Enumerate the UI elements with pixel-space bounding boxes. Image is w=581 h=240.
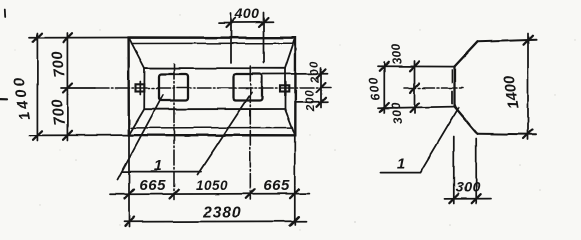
left hole centerline bbox=[173, 64, 175, 200]
dimension 700 left: dimension line bbox=[66, 33, 68, 141]
horizontal centerline bbox=[69, 87, 95, 89]
right view centerline bbox=[404, 87, 463, 89]
dimension 400: extension lines bbox=[230, 13, 232, 63]
right view top extension line bbox=[378, 65, 455, 67]
left face edge bbox=[453, 67, 455, 107]
dimension 300/300: dimension line bbox=[414, 61, 416, 113]
dimension 1400 right: dimension line bbox=[527, 34, 529, 140]
top face rectangle bbox=[144, 68, 285, 109]
svg-text:2380: 2380 bbox=[202, 205, 241, 222]
svg-text:665: 665 bbox=[139, 177, 166, 194]
leader 1 right view: horizontal bar bbox=[380, 172, 420, 174]
dimension 600: dimension line bbox=[383, 62, 385, 113]
leader 1 line from left hole bbox=[118, 95, 164, 180]
left lifting fixture bbox=[136, 84, 145, 91]
inner double line top bbox=[132, 42, 293, 44]
ticks for 300/300 bbox=[410, 62, 419, 71]
corner diagonal bottom-left bbox=[129, 109, 144, 135]
leader 2 line from right hole bbox=[198, 92, 253, 175]
svg-text:1: 1 bbox=[397, 156, 405, 173]
corner diagonal top-right bbox=[285, 38, 295, 68]
dimension 2380: tick marks bbox=[125, 217, 134, 226]
dimension 200/200: tick marks bbox=[317, 69, 326, 78]
corner diagonal bottom-right bbox=[285, 109, 295, 135]
svg-text:700: 700 bbox=[48, 50, 68, 79]
svg-text:300: 300 bbox=[456, 179, 481, 195]
ticks for 1400 right bbox=[524, 36, 533, 45]
svg-text:400: 400 bbox=[234, 5, 260, 21]
bottom extension line right edge bbox=[294, 135, 296, 224]
top slope bbox=[455, 42, 478, 67]
corner diagonal top-left bbox=[129, 38, 145, 68]
bottom edge with extension bbox=[478, 133, 537, 136]
svg-text:1050: 1050 bbox=[196, 178, 228, 193]
top edge with extension bbox=[478, 40, 537, 42]
leader 1 right view: line bbox=[420, 108, 459, 173]
face plate detail lower bbox=[451, 92, 453, 104]
tick marks on left dimension lines bbox=[33, 33, 42, 42]
svg-text:600: 600 bbox=[366, 75, 383, 101]
dimension 300 bottom: extension lines bbox=[453, 137, 455, 204]
dimension 1400 left: extension lines bbox=[30, 37, 129, 39]
dimension 665/1050/665: tick marks bbox=[125, 190, 134, 199]
svg-text:700: 700 bbox=[48, 98, 68, 127]
svg-text:1: 1 bbox=[154, 157, 162, 174]
outer rectangle of block bbox=[129, 38, 296, 136]
inner double line bottom bbox=[132, 127, 293, 129]
right view bottom extension line bbox=[378, 107, 455, 109]
dimension 200/200: dimension line bbox=[320, 68, 322, 108]
dimension 400: dimension line bbox=[220, 21, 274, 23]
right hole bbox=[234, 74, 263, 101]
svg-text:200: 200 bbox=[304, 89, 318, 112]
ticks for 300 bottom bbox=[449, 194, 458, 203]
right lifting fixture bbox=[280, 85, 289, 91]
svg-text:665: 665 bbox=[263, 177, 290, 194]
bottom extension line left edge bbox=[128, 135, 130, 226]
bottom slope bbox=[455, 107, 478, 134]
ticks for 600 bbox=[380, 62, 389, 71]
stray mark top-left bbox=[4, 9, 6, 17]
svg-text:300: 300 bbox=[389, 101, 406, 125]
face plate detail upper bbox=[451, 71, 453, 83]
dimension 200/200 right: extension lines bbox=[263, 73, 328, 75]
stray dash left edge bbox=[0, 98, 7, 100]
svg-text:300: 300 bbox=[388, 43, 404, 65]
dimension 400: tick marks bbox=[227, 18, 236, 27]
right hole centerline bbox=[249, 66, 251, 200]
dimension 300 bottom: dimension line bbox=[445, 198, 491, 200]
svg-text:200: 200 bbox=[308, 60, 322, 85]
left hole bbox=[159, 74, 188, 101]
dimension 1400 left: dimension line bbox=[36, 33, 38, 141]
dimension 2380: dimension line bbox=[124, 220, 306, 223]
dimension 665/1050/665: dimension line bbox=[110, 193, 309, 196]
leader 1 horizontal bar bbox=[122, 171, 201, 173]
